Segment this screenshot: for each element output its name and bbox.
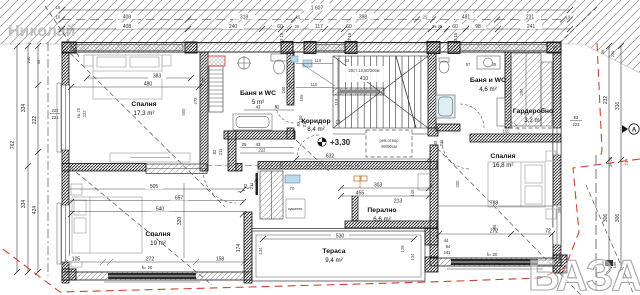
svg-text:4,6 m²: 4,6 m² <box>479 86 497 93</box>
svg-text:657: 657 <box>175 196 184 202</box>
svg-text:717: 717 <box>624 158 629 165</box>
svg-text:72: 72 <box>545 229 551 235</box>
svg-text:222: 222 <box>52 108 60 113</box>
svg-text:165: 165 <box>299 94 304 102</box>
svg-text:410: 410 <box>360 76 369 82</box>
svg-text:232: 232 <box>603 96 609 105</box>
svg-text:762: 762 <box>10 141 16 150</box>
svg-text:174: 174 <box>236 244 242 253</box>
svg-text:60: 60 <box>277 24 283 30</box>
svg-text:200: 200 <box>455 180 460 188</box>
svg-text:25 25: 25 25 <box>608 156 613 167</box>
svg-text:90/90см: 90/90см <box>381 144 397 149</box>
svg-text:222: 222 <box>279 161 284 169</box>
svg-text:62: 62 <box>574 115 579 120</box>
svg-text:222: 222 <box>82 110 87 118</box>
svg-text:408: 408 <box>123 24 132 30</box>
svg-text:105: 105 <box>72 257 81 263</box>
svg-text:480: 480 <box>144 82 153 88</box>
svg-text:222: 222 <box>32 116 38 125</box>
svg-text:158: 158 <box>216 257 225 263</box>
svg-text:388: 388 <box>492 224 497 232</box>
svg-text:386: 386 <box>557 206 562 214</box>
svg-text:17,3 m²: 17,3 m² <box>134 110 155 117</box>
svg-text:455: 455 <box>356 191 365 197</box>
svg-text:25: 25 <box>423 15 428 20</box>
svg-text:211: 211 <box>249 182 254 189</box>
svg-text:383: 383 <box>153 74 162 80</box>
svg-text:Баня и WC: Баня и WC <box>240 90 276 97</box>
svg-text:632: 632 <box>326 154 335 160</box>
svg-text:211: 211 <box>439 139 444 146</box>
svg-text:25: 25 <box>295 24 300 29</box>
svg-text:117: 117 <box>315 24 323 30</box>
svg-text:275: 275 <box>288 81 293 89</box>
svg-text:320: 320 <box>177 217 183 226</box>
svg-text:84: 84 <box>446 244 451 249</box>
svg-text:62: 62 <box>345 58 350 63</box>
svg-text:БАЗАР: БАЗАР <box>528 251 640 295</box>
svg-text:424: 424 <box>32 206 38 215</box>
svg-text:231: 231 <box>526 15 535 21</box>
svg-text:334: 334 <box>21 104 27 113</box>
svg-text:221: 221 <box>573 122 581 127</box>
svg-text:h= 20: h= 20 <box>487 252 498 257</box>
svg-text:134: 134 <box>410 253 415 261</box>
svg-text:306: 306 <box>603 214 609 223</box>
svg-text:241: 241 <box>527 24 536 30</box>
svg-text:8,4 m²: 8,4 m² <box>307 126 325 133</box>
svg-text:129: 129 <box>400 245 405 253</box>
svg-text:560: 560 <box>181 108 186 116</box>
svg-text:Тераса: Тераса <box>322 248 345 255</box>
svg-text:303: 303 <box>374 183 383 189</box>
svg-text:97: 97 <box>466 62 471 67</box>
svg-text:№ 20: № 20 <box>76 107 81 118</box>
svg-text:20ст 16,50/30см: 20ст 16,50/30см <box>348 68 379 73</box>
svg-text:334: 334 <box>21 200 27 209</box>
svg-text:82: 82 <box>433 140 438 145</box>
svg-text:Николай: Николай <box>8 23 75 40</box>
svg-text:19: 19 <box>566 15 571 20</box>
svg-text:А: А <box>632 128 637 134</box>
svg-text:19: 19 <box>56 5 61 10</box>
svg-text:60: 60 <box>346 24 352 30</box>
svg-text:25: 25 <box>242 142 247 147</box>
svg-text:211: 211 <box>218 148 223 155</box>
svg-text:240: 240 <box>229 24 238 30</box>
svg-text:44: 44 <box>444 238 449 243</box>
svg-text:213: 213 <box>394 199 403 205</box>
svg-text:98: 98 <box>475 24 481 30</box>
svg-text:530: 530 <box>336 234 345 240</box>
svg-text:97: 97 <box>201 77 206 82</box>
svg-text:9,4 m²: 9,4 m² <box>325 257 343 264</box>
svg-text:505: 505 <box>150 184 159 190</box>
svg-text:Перално: Перално <box>367 207 396 214</box>
svg-text:134: 134 <box>258 247 263 255</box>
svg-text:788: 788 <box>490 201 499 207</box>
svg-text:272: 272 <box>193 97 198 105</box>
svg-text:Гардеробно: Гардеробно <box>513 107 553 115</box>
svg-text:115: 115 <box>311 82 318 87</box>
svg-text:398: 398 <box>359 15 368 21</box>
svg-text:481: 481 <box>462 15 471 21</box>
svg-text:230: 230 <box>610 50 615 57</box>
svg-text:Спалня: Спалня <box>145 231 170 238</box>
svg-text:150: 150 <box>503 129 511 134</box>
svg-text:35: 35 <box>600 49 605 54</box>
svg-text:Баня и WC: Баня и WC <box>470 77 506 84</box>
svg-text:1 607: 1 607 <box>311 6 324 12</box>
svg-text:146: 146 <box>410 189 415 197</box>
svg-text:222: 222 <box>259 148 267 153</box>
svg-text:Спалня: Спалня <box>490 153 515 160</box>
svg-text:82: 82 <box>275 105 280 110</box>
svg-text:254: 254 <box>519 88 524 96</box>
svg-text:19 m²: 19 m² <box>150 240 166 247</box>
svg-text:60: 60 <box>452 24 458 30</box>
svg-text:+3,30: +3,30 <box>330 138 351 147</box>
svg-text:19: 19 <box>56 15 61 20</box>
svg-text:408: 408 <box>123 15 132 21</box>
svg-text:сушилня: сушилня <box>288 207 302 211</box>
svg-text:306: 306 <box>615 214 621 223</box>
svg-text:6,6 m²: 6,6 m² <box>373 216 391 223</box>
svg-text:82: 82 <box>296 121 301 126</box>
svg-text:221: 221 <box>52 115 60 120</box>
svg-text:272: 272 <box>146 257 155 263</box>
svg-text:116: 116 <box>315 58 322 63</box>
svg-text:35: 35 <box>36 59 41 64</box>
svg-text:рев.отвор: рев.отвор <box>379 138 399 143</box>
svg-text:540: 540 <box>156 207 165 213</box>
svg-text:Спалня: Спалня <box>131 101 156 108</box>
svg-text:3,2 m²: 3,2 m² <box>524 117 542 124</box>
svg-text:115: 115 <box>334 98 339 105</box>
svg-text:43: 43 <box>256 105 261 110</box>
svg-text:240: 240 <box>281 86 286 94</box>
svg-text:h= 20: h= 20 <box>142 265 153 270</box>
svg-text:70: 70 <box>290 186 295 191</box>
svg-text:241: 241 <box>444 250 452 255</box>
svg-text:82: 82 <box>212 149 217 154</box>
svg-text:43: 43 <box>256 142 261 147</box>
svg-text:316: 316 <box>615 102 621 111</box>
svg-text:230: 230 <box>26 56 31 63</box>
svg-text:16,8 m²: 16,8 m² <box>493 162 514 169</box>
svg-text:318: 318 <box>240 15 249 21</box>
svg-text:211: 211 <box>302 120 307 127</box>
